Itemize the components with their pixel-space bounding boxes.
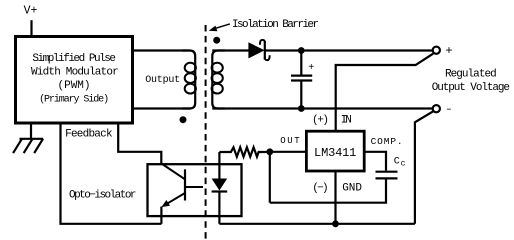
svg-text:+: + [308,63,314,74]
wire top rail diode cathode to + terminal [265,49,433,51]
svg-text:COMP.: COMP. [371,136,403,147]
wire feedback (PWM bottom to opto collector) [118,123,161,165]
label Regulated Output Voltage [432,68,510,94]
junction dot at C1 top [298,47,305,54]
wire IN sense rail [336,54,434,131]
label Isolation Barrier with arrow [209,19,319,31]
wire - return (bottom rail up to - terminal) [415,111,434,224]
isolation barrier dashed line [205,25,207,240]
svg-text:+: + [445,44,452,58]
svg-text:–: – [446,104,452,116]
svg-text:V+: V+ [24,4,38,17]
terminal + output [433,47,440,54]
junction dot at C1 bottom [298,105,305,112]
svg-text:Feedback: Feedback [65,129,113,141]
ground (primary side chassis ground) [13,122,43,153]
svg-text:(−): (−) [312,182,328,194]
transformer T1 secondary winding [212,51,226,109]
label Cc [394,157,406,169]
svg-text:GND: GND [342,182,362,194]
wire bottom rail secondary winding to - terminal [212,107,433,109]
wire secondary bottom rail [219,223,415,225]
capacitor C2 Cc (compensation) [270,172,398,203]
transformer T1 secondary phase dot [213,37,220,44]
PWM block U1 (Simplified Pulse Width Modulator, Primary Side) [16,37,133,124]
svg-text:Width Modulator: Width Modulator [31,67,119,79]
svg-text:c: c [401,160,406,169]
svg-text:C: C [394,157,400,168]
svg-text:Output Voltage: Output Voltage [432,82,510,94]
wire V+ stub to PWM box top [30,20,32,36]
svg-text:OUT: OUT [280,136,300,146]
transformer T1 primary winding [182,51,196,109]
wire PWM output top lead [133,49,190,51]
opto-isolator box [148,164,242,216]
svg-text:(PWM): (PWM) [58,80,91,92]
capacitor C1 (output filter, polarized) [291,51,314,109]
junction dot at OUT node [266,148,273,155]
svg-text:Simplified Pulse: Simplified Pulse [32,53,116,65]
diode D1 (Schottky rectifier) [248,40,269,60]
resistor R1 [219,147,269,156]
svg-text:Isolation Barrier: Isolation Barrier [232,19,319,31]
svg-text:LM3411: LM3411 [314,146,356,160]
svg-text:(Primary Side): (Primary Side) [39,94,109,106]
wire PWM output bottom lead [133,107,190,109]
op-amp U2 LM3411 regulator box [306,131,364,171]
transistor Q1 (opto phototransistor) [161,164,203,208]
wire primary return (PWM bottom to opto emitter) [61,123,162,224]
wire COMP pin to Cc [365,152,387,171]
svg-text:Opto−isolator: Opto−isolator [69,190,137,202]
wire OUT node to LM3411 OUT pin [270,151,306,153]
terminal - output [433,105,440,112]
wire secondary top lead to diode anode [212,49,248,51]
svg-text:Output: Output [145,75,180,86]
svg-text:Regulated: Regulated [445,68,497,80]
svg-text:(+): (+) [312,114,329,126]
LED D2 (opto emitter diode) [212,152,228,224]
junction dot GND / bottom rail [332,220,339,227]
wire GND pin to bottom rail [334,171,336,224]
transformer T1 primary phase dot [180,116,187,123]
svg-text:IN: IN [341,114,352,126]
wire opto emitter to primary return rail [160,207,162,224]
wire OUT node down to Cc return [269,152,271,203]
